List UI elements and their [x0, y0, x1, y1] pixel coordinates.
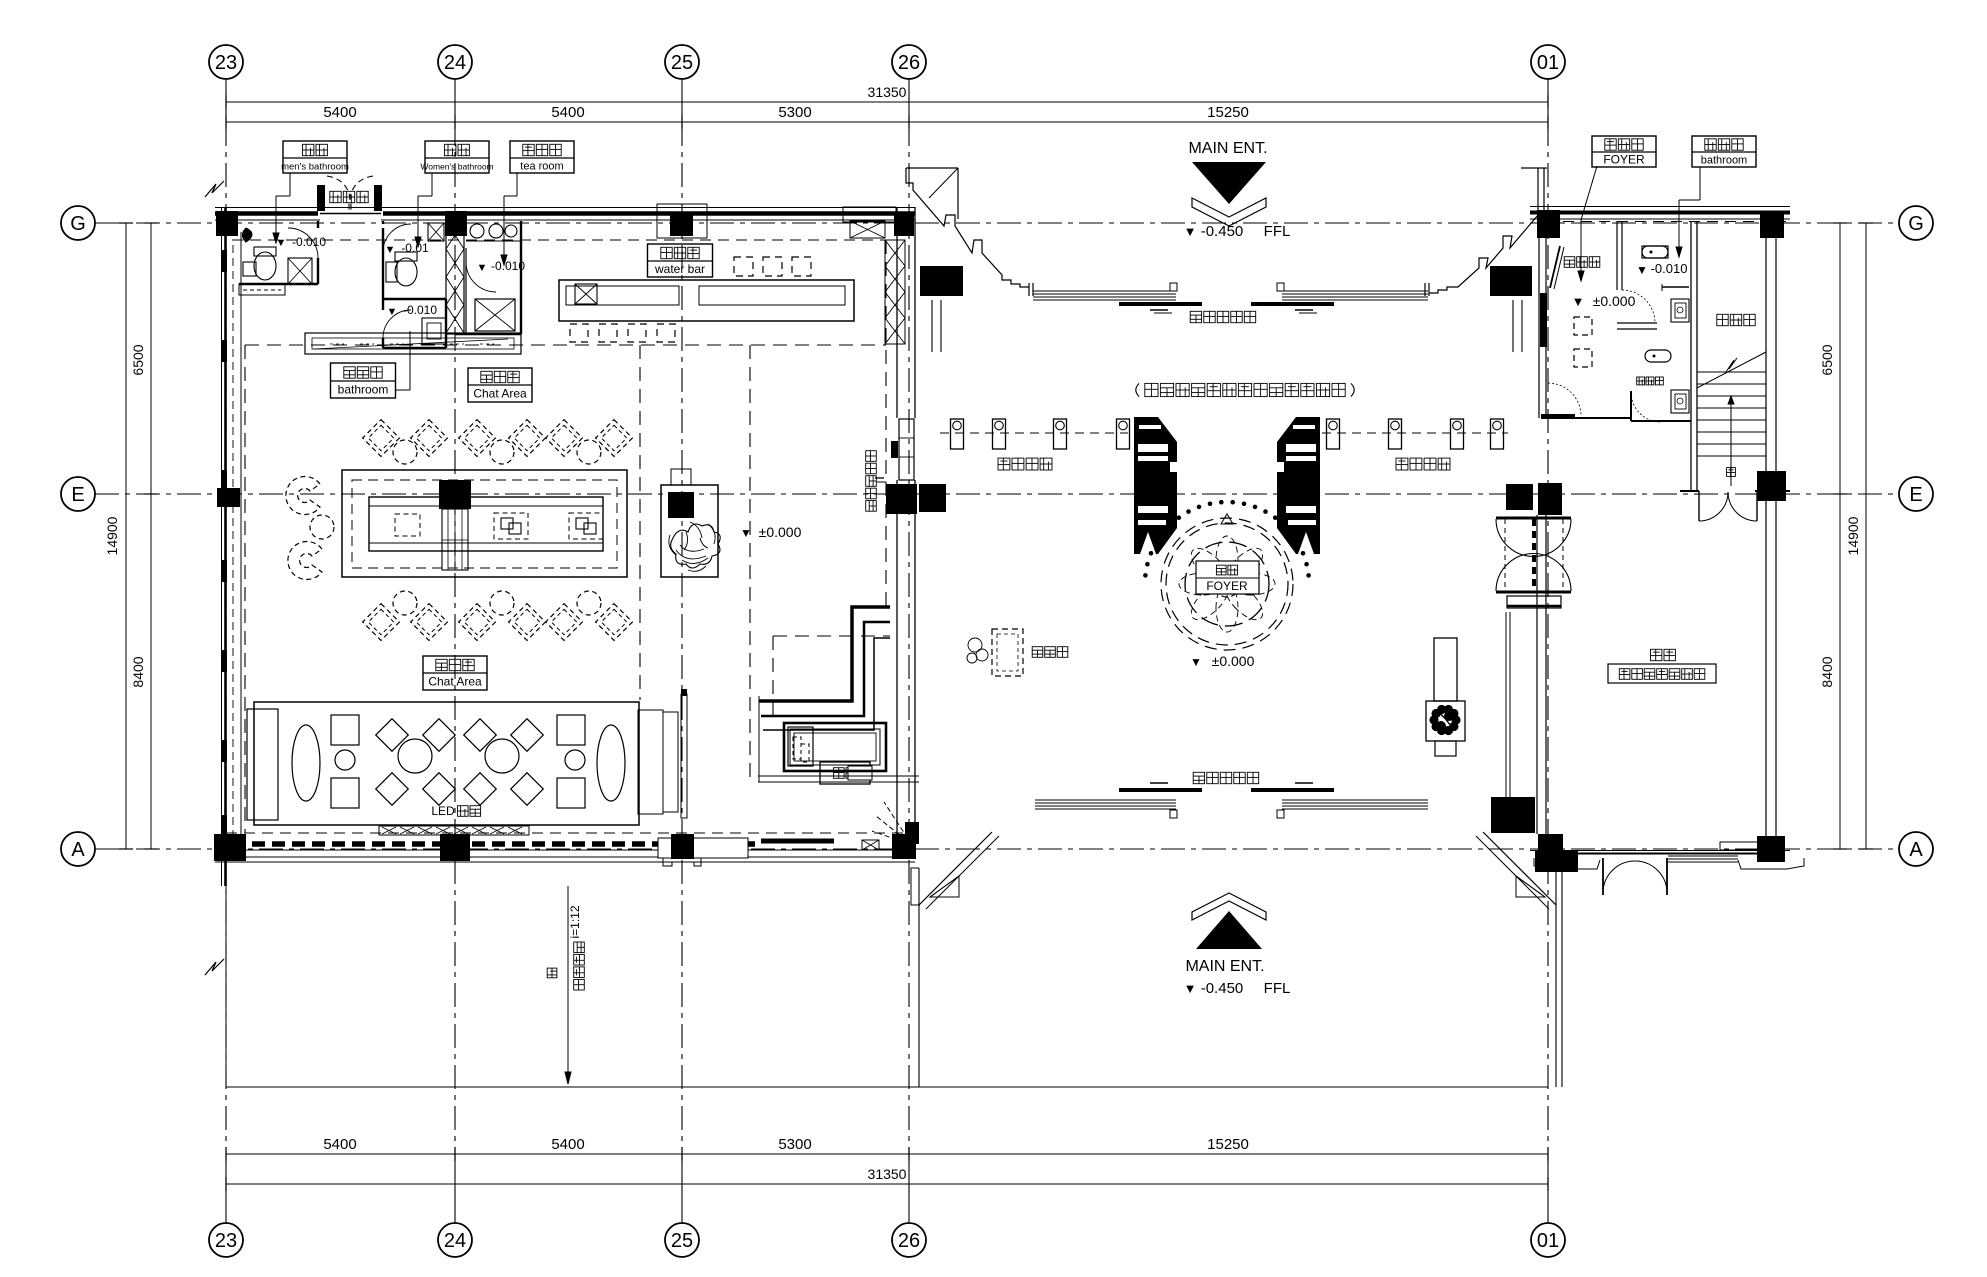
svg-text:±0.000: ±0.000 — [759, 524, 802, 540]
svg-text:▼: ▼ — [387, 306, 398, 318]
LED right cabinets — [638, 710, 663, 814]
mens bathroom toilet — [254, 252, 276, 280]
svg-text:5400: 5400 — [551, 104, 584, 121]
column A/01 — [1538, 834, 1563, 858]
svg-text:01: 01 — [1537, 52, 1559, 74]
slope arrow bottom plaza — [567, 886, 569, 1080]
top door leaves — [1119, 302, 1202, 306]
LED left pocket — [247, 709, 278, 820]
svg-text:FFL: FFL — [1264, 980, 1291, 997]
cleaning room walls — [382, 299, 384, 310]
svg-text:-0.450: -0.450 — [1201, 980, 1244, 997]
column A/26 area — [892, 834, 916, 859]
grid bubble G right — [1899, 206, 1933, 240]
svg-text:31350: 31350 — [868, 1166, 907, 1182]
bottom door leaves — [1119, 788, 1202, 792]
svg-text:▼: ▼ — [1636, 263, 1648, 277]
mens bathroom walls — [317, 221, 319, 228]
bottom canopy wall end block right — [1535, 850, 1578, 872]
label box 洽谈区 Chat Area upper — [468, 368, 532, 402]
column A right end — [1757, 836, 1785, 862]
svg-text:▼: ▼ — [740, 526, 752, 540]
left building top wall along G — [215, 207, 915, 209]
dimension line total 31350 top — [226, 101, 1548, 103]
svg-text:-0.010: -0.010 — [1651, 261, 1688, 276]
table inner dashed seat — [395, 514, 420, 536]
bathroom upper fixture — [1642, 246, 1668, 258]
planter tree scribble — [671, 524, 721, 568]
water bar counter — [559, 280, 854, 321]
bathroom washbasin lower — [1671, 390, 1689, 413]
svg-text:8400: 8400 — [130, 656, 146, 687]
turnstile pedestals right group — [1327, 419, 1340, 449]
svg-text:E: E — [71, 484, 84, 506]
bathroom mid wall — [1617, 322, 1657, 324]
svg-text:MAIN ENT.: MAIN ENT. — [1188, 140, 1267, 157]
main entrance arrow bottom chevron — [1192, 893, 1266, 920]
column A/25 with pilasters — [658, 838, 748, 858]
womens bathroom basin — [428, 223, 444, 241]
curved door side dashed — [1504, 519, 1506, 591]
shop apron steps left — [1534, 858, 1600, 869]
vanity counter band below bathrooms — [305, 333, 521, 354]
tea room door arc — [466, 262, 496, 292]
LED left ellipse table — [292, 725, 320, 801]
right wall of left building — [896, 207, 898, 418]
shop entry door arcs — [1603, 861, 1635, 893]
left exterior wall — [221, 207, 223, 886]
evacuation door 疏散口 posts — [317, 185, 325, 211]
svg-text:5400: 5400 — [551, 1136, 584, 1153]
svg-text:14900: 14900 — [1845, 516, 1861, 555]
bottom canopy right vertical — [1555, 868, 1557, 1087]
svg-text:G: G — [70, 213, 86, 235]
svg-text:24: 24 — [444, 1230, 466, 1252]
label 接待台 — [1032, 647, 1068, 658]
column E/24 in table — [439, 480, 471, 509]
mens bathroom urinal — [243, 228, 253, 242]
leader 女卫 — [431, 173, 433, 196]
shop left wall — [1536, 515, 1538, 834]
mens bathroom basin box — [288, 258, 312, 284]
monitor panel diagonal — [1550, 246, 1560, 288]
top canopy right corner box — [1521, 167, 1547, 169]
chat area chairs row 2 — [363, 604, 400, 641]
column E/25 — [668, 492, 694, 518]
svg-text:±0.000: ±0.000 — [1593, 293, 1636, 309]
svg-text:FFL: FFL — [1264, 223, 1291, 240]
svg-text:5300: 5300 — [778, 104, 811, 121]
curved sliding door bottom arc — [1496, 554, 1571, 592]
table bracket fixtures — [494, 513, 528, 539]
LED small squares and circles — [331, 715, 359, 745]
curved door center track — [1532, 519, 1536, 591]
wall stub below canopy block — [931, 300, 933, 352]
svg-text:25: 25 — [671, 1230, 693, 1252]
grid line 01 vertical — [1547, 79, 1549, 122]
grid bubble 24 bottom — [438, 1223, 472, 1257]
foyer circle dotted arc — [1143, 573, 1148, 578]
mens bathroom small fixture — [243, 262, 256, 276]
grid bubble 01 bottom — [1531, 1223, 1565, 1257]
curved door mat — [1507, 596, 1561, 608]
svg-text:23: 23 — [215, 1230, 237, 1252]
foyer circle center — [1214, 571, 1240, 597]
plaza boundary line bottom — [226, 1086, 1548, 1088]
svg-text:A: A — [1909, 839, 1923, 861]
womens bathroom walls — [382, 228, 384, 252]
reception scribble — [968, 638, 982, 652]
grid bubble G left — [61, 206, 95, 240]
leader 茶水间 — [516, 173, 518, 196]
svg-text:▼: ▼ — [1190, 655, 1202, 669]
svg-text:15250: 15250 — [1207, 1136, 1249, 1153]
security gate right — [1277, 417, 1320, 554]
grid bubble 01 top — [1531, 45, 1565, 79]
svg-text:▼: ▼ — [1184, 224, 1197, 239]
water bar X box — [575, 284, 597, 304]
bottom canopy left vertical — [918, 868, 920, 1087]
column G/26 with window box — [843, 207, 896, 222]
grid line 25 vertical — [681, 79, 683, 122]
grid bubble A right — [1899, 832, 1933, 866]
leader 男卫 — [289, 173, 291, 196]
LED screen thin — [681, 694, 687, 818]
svg-text:8400: 8400 — [1819, 656, 1835, 687]
window hatch band bottom wall — [252, 841, 662, 847]
foyer room left wall — [1538, 238, 1540, 418]
bottom canopy left triangle — [930, 876, 959, 897]
water feature step L inner — [763, 638, 890, 730]
chat area chairs row 1 — [363, 420, 400, 457]
label box 清洁间 bathroom — [331, 363, 396, 398]
label 通行闸口 right — [1396, 458, 1450, 470]
shop wall corner buttress black — [1491, 797, 1535, 833]
svg-text:5400: 5400 — [323, 104, 356, 121]
shaft strip between 24 — [446, 221, 464, 334]
stair double door bottom — [1698, 491, 1700, 521]
svg-text:i=1:12: i=1:12 — [568, 905, 582, 938]
column G/01 — [1537, 210, 1560, 238]
svg-text:men's bathroom: men's bathroom — [281, 162, 349, 173]
evacuation door dashed arcs — [327, 176, 351, 210]
top canopy left stepped zigzag — [906, 168, 1029, 287]
left building bottom wall along A — [215, 849, 915, 851]
bathroom shelf — [1662, 286, 1689, 288]
revolving door columns at E — [1506, 484, 1533, 510]
label box 洽谈区 Chat Area lower — [423, 656, 487, 690]
bar stools below — [570, 324, 588, 342]
label box 警卫室 FOYER — [1592, 136, 1656, 167]
dimension line 6500/8400 right — [1839, 223, 1841, 849]
water feature bottom lines — [758, 775, 919, 777]
bathroom lower fixture — [1645, 350, 1671, 362]
bar stools above — [734, 257, 753, 276]
foyer circle top tick — [1221, 514, 1233, 524]
bottom canopy left diagonal — [919, 832, 992, 905]
label 非本次设计范围 box — [1608, 664, 1716, 683]
window sill right — [1720, 842, 1758, 850]
svg-text:-0.01: -0.01 — [401, 241, 429, 255]
svg-text:5300: 5300 — [778, 1136, 811, 1153]
label 电动单推门 left — [866, 451, 877, 512]
label box 水景 — [820, 762, 870, 784]
svg-text:-0.010: -0.010 — [491, 259, 525, 273]
top canopy left corner box — [906, 167, 958, 169]
svg-text:water bar: water bar — [654, 262, 705, 276]
grid bubble 26 top — [892, 45, 926, 79]
scope dashed boundary left building — [245, 344, 886, 346]
dimension line 14900 left — [125, 223, 127, 849]
water feature left edge — [758, 696, 760, 782]
foyer circle middle ring — [1185, 542, 1269, 626]
column G/24 — [445, 211, 467, 236]
svg-text:6500: 6500 — [1819, 344, 1835, 375]
column G right end — [1760, 211, 1784, 238]
label 楼梯间 — [1717, 314, 1755, 325]
central long table block — [342, 470, 627, 577]
svg-text:15250: 15250 — [1207, 104, 1249, 121]
grid bubble 23 bottom — [209, 1223, 243, 1257]
svg-text:E: E — [1909, 484, 1922, 506]
svg-text:LED: LED — [431, 804, 455, 818]
sliding door panel 电动单推门 — [899, 419, 914, 480]
leader 卫生间 right — [1699, 167, 1701, 200]
svg-text:-0.010: -0.010 — [292, 235, 326, 249]
bathroom door arc upper — [1622, 290, 1655, 323]
top canopy right stepped zigzag — [1429, 215, 1538, 293]
right building top wall — [1530, 206, 1790, 208]
svg-text:MAIN ENT.: MAIN ENT. — [1185, 958, 1264, 975]
svg-text:bathroom: bathroom — [1701, 155, 1747, 167]
svg-text:▼: ▼ — [477, 262, 488, 274]
svg-text:24: 24 — [444, 52, 466, 74]
column A/24 — [440, 834, 470, 861]
note shaded area text — [1136, 383, 1354, 396]
stair room walls — [1690, 221, 1692, 491]
svg-text:14900: 14900 — [104, 516, 120, 555]
stair bottom wall — [1680, 490, 1699, 492]
grid bubble 23 top — [209, 45, 243, 79]
label box 茶水间 tea room — [510, 141, 574, 173]
grid line A horizontal — [95, 848, 1899, 850]
wall stub below right canopy block — [1512, 300, 1514, 352]
label 疏散口 — [330, 191, 368, 202]
label box 女卫 women's bathroom — [425, 141, 489, 173]
svg-text:FOYER: FOYER — [1603, 153, 1645, 167]
break mark top left wall — [205, 181, 224, 197]
svg-text:-0.010: -0.010 — [403, 303, 437, 317]
planter tree dense scribble — [1429, 705, 1460, 735]
svg-text:tea room: tea room — [520, 161, 563, 173]
columns at E/26 — [886, 484, 917, 514]
stair treads — [1697, 371, 1766, 373]
dimension line segments bottom — [226, 1153, 1548, 1155]
svg-text:31350: 31350 — [868, 84, 907, 100]
window shaft strip with X — [885, 240, 905, 344]
water feature pump box — [788, 727, 813, 766]
planter base right — [1435, 741, 1456, 756]
electric door solid bar bottom wall — [761, 839, 834, 844]
svg-text:±0.000: ±0.000 — [1212, 653, 1255, 669]
svg-text:23: 23 — [215, 52, 237, 74]
svg-text:▼: ▼ — [1184, 981, 1197, 996]
top canopy wall end block left — [920, 266, 963, 296]
womens bathroom toilet — [395, 258, 417, 286]
svg-text:6500: 6500 — [130, 344, 146, 375]
label box 水吧区 water bar — [648, 244, 713, 277]
bottom canopy right triangle — [1516, 876, 1545, 897]
grid line 23 vertical — [225, 79, 227, 122]
womens bathroom door arc — [383, 224, 411, 252]
curved sliding door bottom chord — [1496, 591, 1571, 594]
bathroom lower walls — [1630, 391, 1632, 421]
LED diamond cluster 2 — [485, 739, 519, 773]
single door motor bottom left — [905, 822, 919, 844]
dimension line 6500/8400 left — [150, 223, 152, 849]
door pocket outline bottom wall — [663, 858, 701, 866]
svg-text:Chat Area: Chat Area — [473, 387, 527, 401]
left wall poche segments — [222, 250, 228, 272]
main entrance arrow bottom filled — [1196, 911, 1262, 949]
bathroom divider wall upper — [1616, 221, 1618, 290]
label 通行闸口 left — [998, 458, 1052, 470]
tea room shaft box — [475, 299, 515, 331]
security gate left — [1134, 417, 1177, 554]
lounge fan chairs left — [286, 477, 320, 515]
dimension line total 31350 bottom — [226, 1183, 1548, 1185]
tea room sink counter — [466, 240, 521, 242]
svg-text:26: 26 — [898, 52, 920, 74]
svg-text:Chat Area: Chat Area — [428, 675, 482, 689]
bottom canopy right diagonal — [1483, 832, 1556, 905]
grid bubble 25 bottom — [665, 1223, 699, 1257]
svg-text:G: G — [1908, 213, 1924, 235]
label 上 — [1727, 468, 1736, 477]
water feature scope dashes — [773, 635, 890, 637]
grid line G horizontal — [95, 222, 1899, 224]
curved sliding door top chord — [1496, 517, 1571, 520]
dimension line segments top — [226, 121, 1548, 123]
stair up arrow — [1730, 398, 1732, 486]
foyer leader arrow from box — [1581, 166, 1597, 220]
grid line 26 vertical — [908, 79, 910, 122]
dimension line 14900 right — [1865, 223, 1867, 849]
grid bubble 25 top — [665, 45, 699, 79]
column G/25 with pilaster — [657, 204, 707, 238]
LED diamond cluster 1 — [398, 739, 432, 773]
top door jamb ticks — [1170, 283, 1177, 291]
svg-text:FOYER: FOYER — [1206, 579, 1248, 593]
foyer center label box — [1196, 561, 1259, 594]
tea room walls — [520, 221, 522, 334]
foyer door arc bottom — [1548, 383, 1581, 416]
break mark bottom left wall — [205, 959, 224, 975]
LED right ellipse table — [597, 725, 625, 801]
LED base band below — [379, 826, 529, 835]
svg-text:A: A — [71, 839, 85, 861]
grid bubble E left — [61, 477, 95, 511]
shop entry door jambs — [1602, 858, 1604, 895]
turnstile queue dashed line — [940, 432, 1128, 434]
grid line E horizontal — [95, 493, 1899, 495]
label 电动双推门 bottom — [1193, 772, 1259, 783]
top canopy wall end block right — [1490, 266, 1532, 296]
label box 男卫 men's bathroom — [283, 141, 347, 173]
svg-text:Women's bathroom: Women's bathroom — [420, 162, 493, 172]
svg-text:26: 26 — [898, 1230, 920, 1252]
leader 清洁间 — [396, 389, 410, 391]
label box 卫生间 bathroom — [1692, 136, 1756, 167]
svg-text:01: 01 — [1537, 1230, 1559, 1252]
main entrance arrow top chevron — [1192, 198, 1266, 226]
bottom entrance door rails — [1035, 799, 1176, 801]
label 监控屏 — [1564, 257, 1600, 268]
bottom door jamb ticks — [1170, 810, 1177, 818]
svg-text:▼: ▼ — [385, 244, 396, 256]
column E/23 — [217, 488, 240, 507]
water feature pool outer — [784, 723, 886, 771]
womens bathroom fixture — [386, 262, 397, 282]
grid line 24 vertical — [454, 79, 456, 122]
water feature label white rect — [848, 766, 872, 780]
grid bubble 26 bottom — [892, 1223, 926, 1257]
main entrance arrow top filled — [1192, 162, 1266, 204]
door leaf element below column — [442, 509, 468, 570]
curved sliding door top arc — [1496, 519, 1571, 557]
bathroom lower door arc — [1631, 392, 1661, 422]
svg-text:▼: ▼ — [1572, 294, 1585, 309]
foyer circle outer dashed rings — [1161, 518, 1293, 650]
svg-text:25: 25 — [671, 52, 693, 74]
foyer circle petals — [1216, 536, 1238, 584]
turnstile pedestals left group — [951, 419, 964, 449]
label 卫生间 small — [1637, 377, 1664, 385]
cleaning room mop sink — [422, 318, 446, 344]
water feature step L mid — [761, 622, 890, 716]
label 电动双推门 top — [1190, 311, 1256, 322]
foyer bottom wall — [1541, 417, 1631, 419]
shop bottom wall — [1530, 850, 1790, 852]
grid bubble 24 top — [438, 45, 472, 79]
svg-text:bathroom: bathroom — [338, 383, 389, 397]
stair diagonal cut — [1697, 352, 1766, 388]
LED screen area outer — [254, 702, 639, 825]
column A/23 — [214, 834, 246, 861]
grid bubble A left — [61, 832, 95, 866]
grid bubble E right — [1899, 477, 1933, 511]
water feature step L outer — [759, 607, 890, 701]
top entrance door rails — [1033, 290, 1176, 292]
label 地面找坡 i=1:12 — [547, 968, 557, 978]
planter box mid — [661, 485, 718, 577]
label 商铺 — [1651, 649, 1676, 660]
reception desk dashed — [992, 629, 1023, 676]
cleaning room door arc — [383, 310, 411, 338]
display pedestal right — [1434, 638, 1457, 701]
svg-text:-0.450: -0.450 — [1201, 223, 1244, 240]
mens bathroom door arc — [288, 228, 318, 258]
ceiling dashed line below top wall — [232, 239, 905, 241]
column E right end — [1757, 471, 1786, 501]
bathroom washbasin upper — [1671, 299, 1689, 322]
foyer dashed squares — [1574, 317, 1592, 335]
column G/23 — [216, 211, 238, 236]
shop apron steps right — [1738, 858, 1804, 869]
svg-text:5400: 5400 — [323, 1136, 356, 1153]
planter box right — [1426, 701, 1465, 741]
